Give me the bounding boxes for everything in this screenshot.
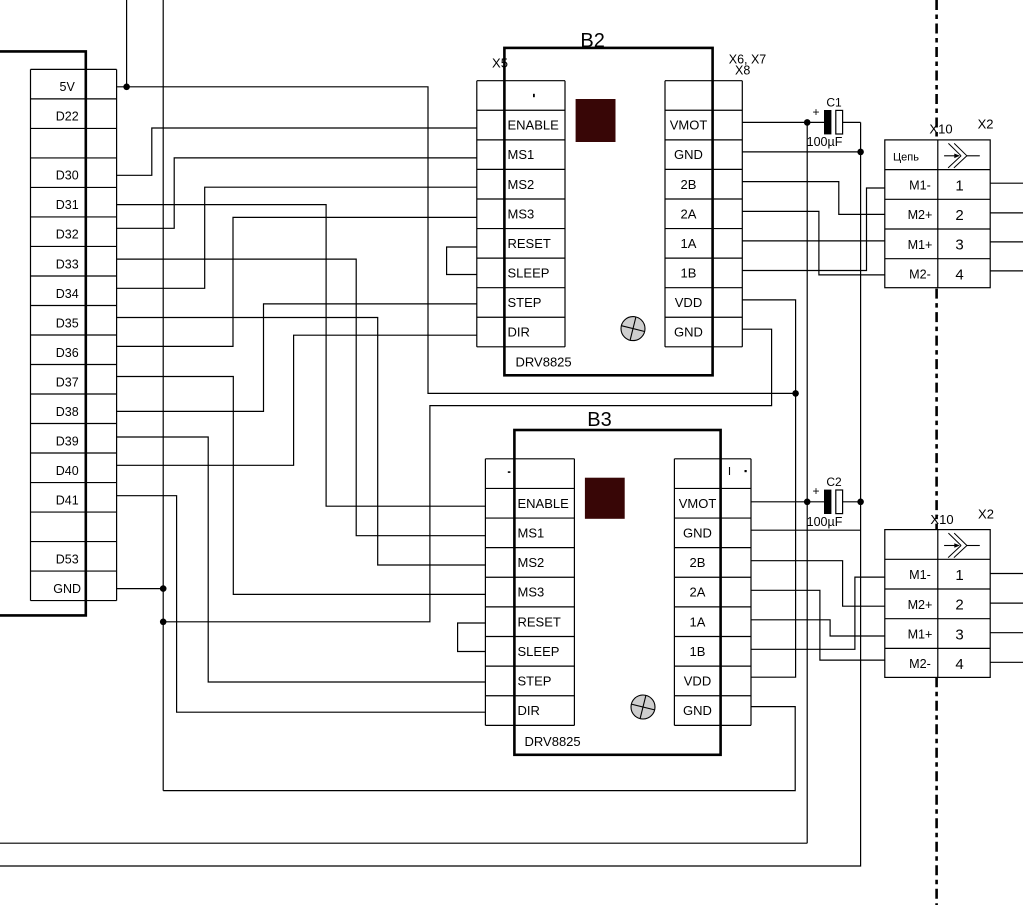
node GND junction 2 bbox=[160, 619, 167, 626]
B2 trimmer (crosshair) bbox=[621, 317, 645, 341]
wire GND rail vertical bbox=[162, 0, 164, 791]
node VDD rail junction bbox=[792, 390, 799, 397]
B3 RESET-SLEEP strap bbox=[458, 623, 486, 652]
boundary dash-dot line bbox=[935, 0, 938, 140]
svg-text:GND: GND bbox=[683, 703, 712, 718]
wire Arduino GND to rail bbox=[117, 588, 164, 590]
B3 chip (dark square) bbox=[585, 478, 625, 519]
B2 RESET-SLEEP strap bbox=[447, 247, 477, 275]
wire C2 to GND rail bbox=[843, 501, 861, 503]
capacitor C2 minus plate bbox=[836, 490, 843, 514]
svg-text:3: 3 bbox=[955, 626, 963, 643]
svg-text:DRV8825: DRV8825 bbox=[516, 355, 572, 370]
svg-text:B2: B2 bbox=[580, 30, 604, 52]
svg-text:SLEEP: SLEEP bbox=[518, 644, 560, 659]
svg-text:ENABLE: ENABLE bbox=[518, 496, 570, 511]
svg-text:D30: D30 bbox=[56, 169, 79, 183]
svg-text:MS2: MS2 bbox=[518, 555, 545, 570]
capacitor C2 plus plate bbox=[824, 490, 831, 514]
svg-text:X10: X10 bbox=[930, 512, 953, 527]
B3 left pin1 dot bbox=[508, 471, 511, 473]
capacitor C1 minus plate bbox=[836, 110, 843, 134]
node C1 plus junction bbox=[804, 119, 811, 126]
svg-text:5V: 5V bbox=[60, 80, 76, 94]
wire GND right rail bbox=[0, 122, 861, 866]
svg-text:4: 4 bbox=[955, 656, 963, 673]
svg-text:X5: X5 bbox=[492, 56, 508, 71]
node B2 GND junction bbox=[857, 149, 864, 156]
wire D41 to B3 DIR bbox=[117, 496, 486, 713]
B3 trimmer (crosshair) bbox=[631, 695, 655, 719]
svg-text:1B: 1B bbox=[681, 266, 697, 281]
wire B3 VMOT bbox=[751, 501, 807, 503]
wire D37 to B3 MS3 bbox=[117, 377, 486, 595]
wire B3 1A to X10 pin3 bbox=[751, 620, 885, 636]
svg-text:M1+: M1+ bbox=[908, 238, 933, 252]
svg-text:M1-: M1- bbox=[909, 178, 931, 192]
svg-text:X10: X10 bbox=[929, 122, 952, 137]
svg-text:RESET: RESET bbox=[508, 236, 551, 251]
svg-text:D35: D35 bbox=[56, 316, 79, 330]
wire D30 to B2 ENABLE bbox=[117, 128, 477, 175]
svg-text:VDD: VDD bbox=[684, 674, 711, 689]
svg-text:MS3: MS3 bbox=[518, 585, 545, 600]
svg-text:D40: D40 bbox=[56, 464, 79, 478]
B3 left pin table bbox=[485, 458, 574, 460]
svg-text:SLEEP: SLEEP bbox=[508, 266, 550, 281]
wire C1 plus link bbox=[807, 121, 824, 123]
svg-text:MS1: MS1 bbox=[518, 526, 545, 541]
wire 5V to VDD rail bbox=[117, 87, 796, 394]
wire B2 VMOT bbox=[742, 121, 807, 123]
node GND junction 1 bbox=[160, 585, 167, 592]
svg-text:ENABLE: ENABLE bbox=[508, 118, 560, 133]
svg-text:D31: D31 bbox=[56, 198, 79, 212]
svg-text:D34: D34 bbox=[56, 287, 79, 301]
svg-text:D22: D22 bbox=[56, 110, 79, 124]
svg-text:D37: D37 bbox=[56, 375, 79, 389]
svg-text:M2+: M2+ bbox=[908, 208, 933, 222]
svg-text:+: + bbox=[812, 105, 819, 119]
module B2 outline bbox=[504, 48, 712, 375]
connector X10 top table bbox=[885, 140, 990, 288]
svg-text:B3: B3 bbox=[587, 409, 611, 431]
svg-text:D41: D41 bbox=[56, 493, 79, 507]
svg-text:1A: 1A bbox=[681, 236, 697, 251]
svg-text:100µF: 100µF bbox=[807, 515, 843, 529]
svg-text:2: 2 bbox=[955, 207, 963, 224]
wire VMOT rail bbox=[806, 122, 808, 843]
wire D39 to B3 STEP bbox=[117, 437, 486, 682]
svg-text:STEP: STEP bbox=[518, 674, 552, 689]
svg-text:GND: GND bbox=[674, 147, 703, 162]
wire VDD rail bbox=[742, 300, 795, 677]
module B3 outline bbox=[514, 430, 720, 755]
svg-text:X8: X8 bbox=[735, 63, 750, 77]
wire B2 2B to X10 pin2 bbox=[742, 182, 885, 215]
svg-text:Цепь: Цепь bbox=[893, 151, 919, 163]
svg-text:M1-: M1- bbox=[909, 568, 931, 582]
svg-text:4: 4 bbox=[955, 266, 963, 283]
svg-text:VDD: VDD bbox=[675, 295, 702, 310]
svg-text:D36: D36 bbox=[56, 346, 79, 360]
B2 right pin table bbox=[665, 80, 742, 82]
svg-text:C2: C2 bbox=[826, 475, 842, 489]
wire D31 to B3 ENABLE bbox=[117, 205, 486, 507]
B3 right pin table bbox=[674, 458, 751, 460]
svg-text:2A: 2A bbox=[681, 206, 697, 221]
svg-text:VMOT: VMOT bbox=[670, 118, 708, 133]
B2 chip (dark square) bbox=[576, 99, 616, 142]
svg-text:VMOT: VMOT bbox=[679, 496, 717, 511]
wire B2 1A to X10 pin3 bbox=[742, 240, 885, 242]
wire C2 plus link bbox=[807, 501, 824, 503]
svg-text:2A: 2A bbox=[690, 585, 706, 600]
wire D38 to B2 STEP bbox=[117, 304, 477, 412]
B3 pin1 tick bbox=[729, 467, 731, 475]
svg-text:DIR: DIR bbox=[508, 325, 530, 340]
svg-text:1: 1 bbox=[955, 567, 963, 584]
svg-text:MS1: MS1 bbox=[508, 147, 535, 162]
Arduino board thick outline bbox=[0, 51, 86, 615]
svg-text:D53: D53 bbox=[56, 552, 79, 566]
svg-text:DIR: DIR bbox=[518, 703, 540, 718]
wire D35 to B3 MS2 bbox=[117, 318, 486, 566]
svg-text:2: 2 bbox=[955, 597, 963, 614]
svg-text:1: 1 bbox=[955, 177, 963, 194]
node 5V junction bbox=[123, 84, 130, 91]
svg-text:M2-: M2- bbox=[909, 657, 931, 671]
wire B3 2B to X10 pin2 bbox=[751, 561, 885, 607]
X10 bottom output stubs bbox=[990, 573, 1023, 575]
svg-text:MS2: MS2 bbox=[508, 177, 535, 192]
B2 left pin table bbox=[477, 80, 565, 82]
svg-text:2B: 2B bbox=[681, 177, 697, 192]
wire B3 GND bbox=[751, 529, 861, 531]
svg-text:M1+: M1+ bbox=[908, 628, 933, 642]
wire D36 to B2 MS3 bbox=[117, 217, 477, 346]
wire B2 2A to X10 pin4 bbox=[742, 211, 885, 275]
wire C1 to GND rail bbox=[843, 121, 861, 123]
wire 5V feed from top bbox=[126, 0, 128, 87]
wire B3 1B to X10 pin1 bbox=[751, 577, 885, 649]
wire B3 GND return bbox=[163, 707, 795, 791]
svg-text:X2: X2 bbox=[978, 116, 994, 131]
wire B2 1B to X10 pin1 bbox=[742, 188, 885, 271]
connector X1 pin table (Arduino pins) bbox=[31, 68, 117, 70]
X10 top plug symbol bbox=[944, 155, 959, 157]
svg-text:1A: 1A bbox=[690, 614, 706, 629]
wire B2 GND bbox=[742, 151, 860, 153]
wire D32 to B2 MS1 bbox=[117, 158, 477, 228]
svg-text:D38: D38 bbox=[56, 405, 79, 419]
capacitor C1 plus plate bbox=[824, 110, 831, 134]
svg-text:RESET: RESET bbox=[518, 614, 561, 629]
svg-text:X2: X2 bbox=[978, 507, 994, 522]
svg-text:M2-: M2- bbox=[909, 268, 931, 282]
svg-text:GND: GND bbox=[53, 582, 81, 596]
B2 pin1 tick bbox=[533, 94, 535, 97]
svg-text:D33: D33 bbox=[56, 257, 79, 271]
svg-text:2B: 2B bbox=[690, 555, 706, 570]
wire D34 to B2 MS2 bbox=[117, 187, 477, 288]
connector X10 bottom table bbox=[885, 530, 990, 678]
svg-text:STEP: STEP bbox=[508, 295, 542, 310]
X10 top output stubs bbox=[990, 182, 1023, 184]
wire B3 2A to X10 pin4 bbox=[751, 590, 885, 660]
svg-text:C1: C1 bbox=[826, 95, 842, 109]
svg-text:100µF: 100µF bbox=[807, 135, 843, 149]
svg-text:3: 3 bbox=[955, 237, 963, 254]
svg-text:M2+: M2+ bbox=[908, 598, 933, 612]
X10 bottom plug symbol bbox=[944, 545, 959, 547]
svg-text:GND: GND bbox=[683, 526, 712, 541]
svg-text:DRV8825: DRV8825 bbox=[525, 734, 581, 749]
svg-text:+: + bbox=[812, 484, 819, 498]
node C2 plus junction bbox=[804, 499, 811, 506]
svg-text:1B: 1B bbox=[690, 644, 706, 659]
wire D33 to B3 MS1 bbox=[117, 259, 486, 536]
wire D40 to B2 DIR bbox=[117, 335, 477, 465]
wire B2 GND return bbox=[163, 329, 771, 622]
svg-text:D39: D39 bbox=[56, 434, 79, 448]
svg-text:D32: D32 bbox=[56, 228, 79, 242]
svg-text:GND: GND bbox=[674, 325, 703, 340]
wire VMOT bottom feed bbox=[0, 842, 807, 844]
svg-text:MS3: MS3 bbox=[508, 206, 535, 221]
node C2 minus junction bbox=[857, 499, 864, 506]
